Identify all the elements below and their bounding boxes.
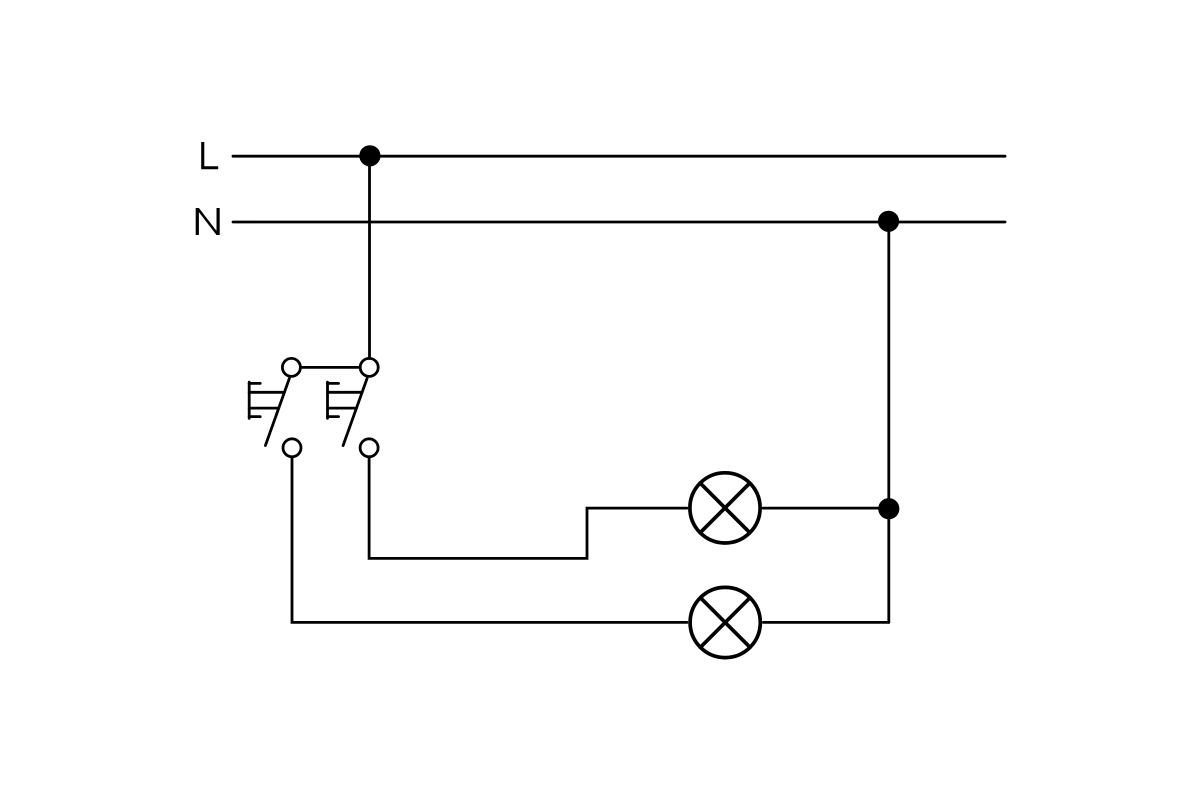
lamp E2 bbox=[690, 587, 760, 657]
junction on N line bbox=[878, 211, 899, 232]
switch S2 top terminal bbox=[360, 358, 378, 376]
switch S1 top terminal bbox=[282, 358, 300, 376]
switch S2 lever bbox=[343, 378, 367, 445]
wire from N junction down to lamp E2 bbox=[887, 222, 890, 622]
net label N bbox=[196, 208, 220, 235]
junction at lamp E1 branch bbox=[878, 498, 899, 519]
wire from lamp E2 to N drop bbox=[763, 621, 889, 624]
junction on L line bbox=[359, 145, 380, 166]
wire from S2 bottom terminal to lamp E1 bbox=[369, 457, 687, 559]
switch S1 lever bbox=[265, 378, 289, 445]
net label L bbox=[201, 142, 218, 169]
switch S2 bottom terminal bbox=[360, 439, 378, 457]
wire N line bbox=[233, 221, 1005, 224]
wire from S1 bottom terminal to lamp E2 bbox=[292, 457, 687, 623]
switch S2 actuator bracket bbox=[328, 382, 363, 418]
wire L line bbox=[233, 155, 1005, 158]
switch S1 actuator bracket bbox=[249, 382, 284, 418]
switch S1 bottom terminal bbox=[283, 439, 301, 457]
wire from lamp E1 to junction bbox=[763, 507, 889, 510]
wire from L junction down to switch S2 bbox=[368, 156, 371, 359]
wire linking S1 and S2 top terminals bbox=[300, 366, 360, 369]
lamp E1 bbox=[690, 473, 760, 543]
